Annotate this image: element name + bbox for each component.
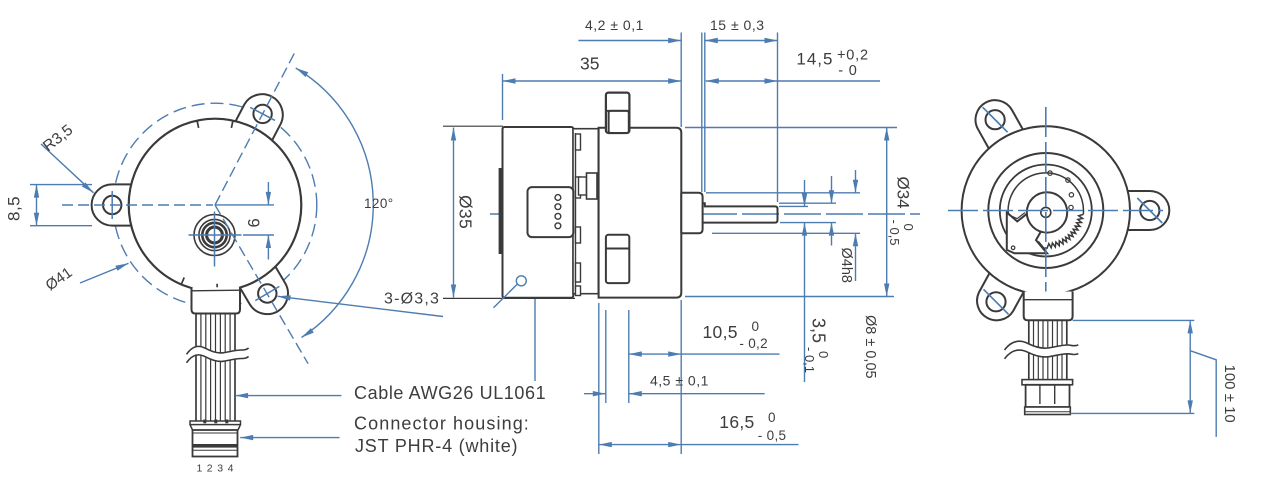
svg-text:8,5: 8,5 (5, 196, 24, 221)
svg-text:0: 0 (816, 351, 831, 358)
svg-text:3: 3 (217, 463, 223, 475)
svg-text:1: 1 (197, 463, 203, 475)
svg-text:4: 4 (228, 463, 234, 475)
svg-text:- 0,2: - 0,2 (739, 336, 768, 351)
svg-text:+0,2: +0,2 (837, 48, 869, 64)
svg-text:Ø8 ± 0,05: Ø8 ± 0,05 (862, 315, 878, 379)
svg-text:Ø4h8: Ø4h8 (838, 248, 854, 283)
svg-text:- 0: - 0 (838, 63, 857, 79)
svg-text:0: 0 (768, 410, 776, 425)
svg-text:16,5: 16,5 (719, 412, 754, 432)
svg-text:35: 35 (580, 54, 599, 74)
svg-text:120°: 120° (364, 196, 394, 211)
svg-text:2: 2 (207, 463, 213, 475)
svg-text:3,5: 3,5 (809, 318, 829, 343)
svg-text:15 ± 0,3: 15 ± 0,3 (710, 17, 765, 33)
svg-text:Connector housing:: Connector housing: (354, 414, 530, 434)
svg-text:6: 6 (246, 218, 264, 227)
svg-text:4,5 ± 0,1: 4,5 ± 0,1 (650, 373, 709, 389)
svg-text:- 0,5: - 0,5 (758, 428, 787, 443)
svg-text:- 0,1: - 0,1 (802, 347, 817, 373)
svg-text:Cable AWG26 UL1061: Cable AWG26 UL1061 (354, 383, 546, 403)
svg-text:3-Ø3,3: 3-Ø3,3 (384, 291, 440, 308)
svg-text:JST PHR-4 (white): JST PHR-4 (white) (355, 436, 518, 456)
svg-text:4,2 ± 0,1: 4,2 ± 0,1 (585, 17, 644, 33)
svg-text:Ø35: Ø35 (456, 195, 476, 229)
svg-text:- 0,5: - 0,5 (887, 220, 902, 246)
svg-text:100 ± 10: 100 ± 10 (1221, 365, 1238, 423)
svg-text:0: 0 (752, 319, 760, 334)
svg-text:10,5: 10,5 (703, 322, 738, 342)
svg-text:14,5: 14,5 (796, 50, 833, 69)
svg-text:0: 0 (901, 224, 916, 231)
svg-text:Ø34: Ø34 (894, 177, 913, 209)
